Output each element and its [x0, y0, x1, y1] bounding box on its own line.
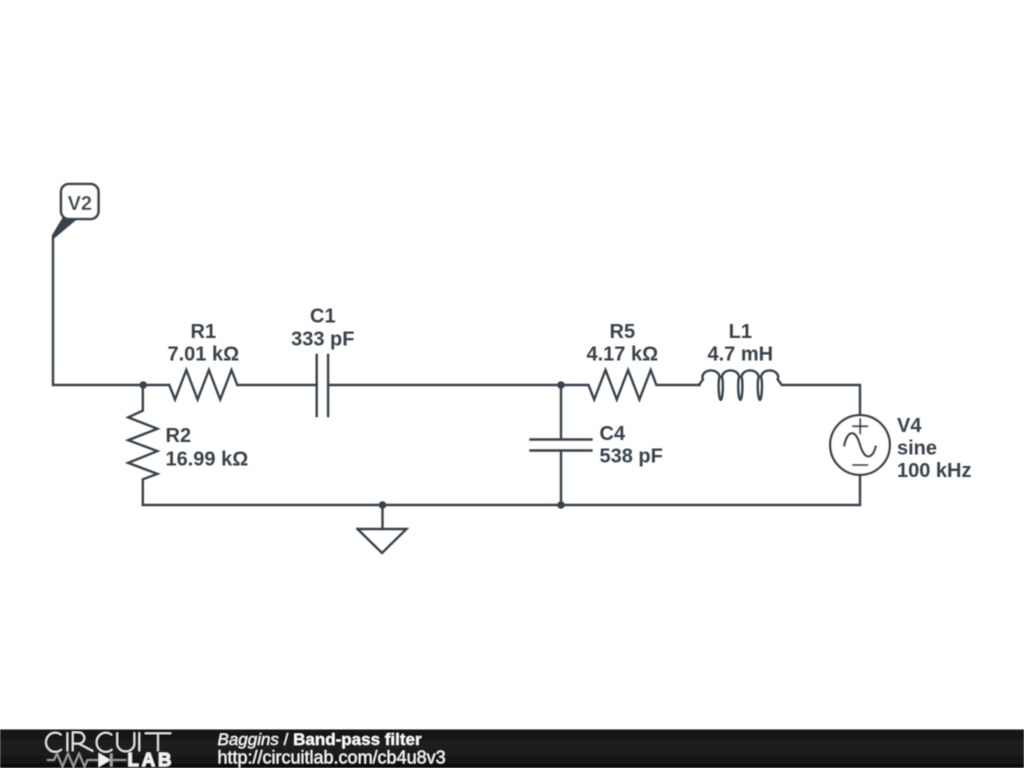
- svg-text:R5: R5: [610, 321, 636, 343]
- svg-text:L1: L1: [729, 321, 752, 343]
- svg-text:R2: R2: [166, 425, 192, 447]
- svg-text:C4: C4: [600, 423, 626, 445]
- svg-text:538 pF: 538 pF: [600, 446, 663, 468]
- svg-text:V4: V4: [897, 415, 922, 437]
- svg-text:C1: C1: [310, 305, 336, 327]
- svg-text:4.7 mH: 4.7 mH: [708, 344, 774, 366]
- svg-text:4.17 kΩ: 4.17 kΩ: [586, 344, 658, 366]
- svg-text:http://circuitlab.com/cb4u8v3: http://circuitlab.com/cb4u8v3: [218, 748, 446, 768]
- svg-text:Baggins / Band-pass filter: Baggins / Band-pass filter: [218, 730, 422, 749]
- svg-text:333 pF: 333 pF: [291, 329, 354, 351]
- svg-text:R1: R1: [191, 321, 217, 343]
- svg-text:V2: V2: [68, 193, 92, 215]
- svg-text:100 kHz: 100 kHz: [897, 460, 972, 482]
- svg-text:7.01 kΩ: 7.01 kΩ: [167, 344, 239, 366]
- svg-text:16.99 kΩ: 16.99 kΩ: [166, 448, 249, 470]
- svg-text:sine: sine: [897, 438, 937, 460]
- svg-text:LAB: LAB: [128, 749, 175, 768]
